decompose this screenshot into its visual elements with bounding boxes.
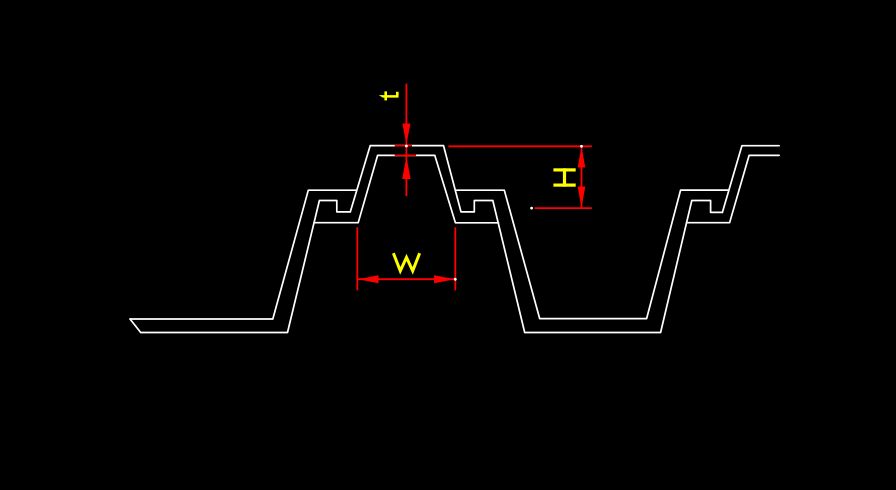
dimension t: lower extension tick — [395, 154, 416, 156]
snap node at t dimension on flange top — [405, 145, 408, 148]
dimension t: arrowhead pointing up at flange underside — [402, 156, 410, 179]
deck sheet 1 left end cap — [130, 319, 141, 333]
deck sheet 4 inner surface: shoulder bottom, web, right flange underside — [687, 155, 780, 222]
label t (rotated CAD glyph) — [379, 95, 399, 98]
dimension W: right extension line — [454, 227, 456, 290]
dimension t: upper extension tick — [395, 145, 412, 147]
snap node at W dimension right end — [454, 278, 457, 281]
deck sheet 2 inner surface: shoulder bottom, left web, top flange underside, right web, right shoulder bottom — [314, 155, 499, 222]
dimension W: arrowhead pointing left — [358, 275, 379, 283]
label W — [393, 253, 419, 271]
deck sheet 1 bottom surface: bottom flange, web, side-lap hook — [141, 201, 351, 333]
deck sheet 3 top surface: shoulder top, web, trough top, web, far shoulder top — [455, 190, 729, 319]
dimension H: arrowhead pointing down — [578, 187, 586, 209]
snap node at H dimension top — [580, 145, 583, 148]
dimension W: arrowhead pointing right — [434, 275, 455, 283]
deck sheet 4 top surface: web up to right flange — [722, 146, 779, 213]
dimension H: bottom reference line — [535, 207, 592, 209]
snap node left of H bottom reference line — [530, 207, 533, 210]
deck sheet 1 top surface: bottom flange, web, shoulder top — [130, 190, 357, 319]
dimension H: vertical dimension line — [581, 146, 583, 208]
dimension t: vertical dimension line — [405, 84, 407, 197]
dimension W: horizontal dimension line — [357, 278, 455, 280]
dimension H: arrowhead pointing up — [578, 146, 586, 167]
dimension W: left extension line — [356, 227, 358, 290]
dimension t: arrowhead pointing down at flange top — [402, 124, 410, 145]
dimension H: top reference line — [448, 145, 591, 147]
label H (rotated): two stems and crossbar — [553, 168, 575, 171]
deck sheet 2 outer surface: left web, top flange, right web, fold-back hook, lower web, trough bottom, right web, far hook — [350, 146, 722, 333]
